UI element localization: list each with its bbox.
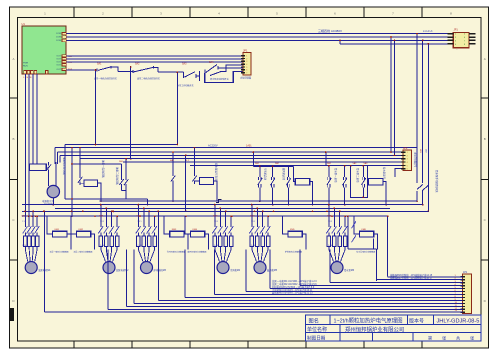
svg-text:5: 5: [407, 165, 408, 167]
svg-text:引风机启动: 引风机启动: [264, 168, 268, 181]
wire to 1P1 pin 12: [108, 308, 463, 310]
wire loop bottom y198.8: [65, 198, 148, 200]
lamp HL1 bottom wire: [52, 198, 54, 205]
wire link bar y249.1: [348, 248, 377, 250]
motor 鼓风机M5: [254, 262, 266, 274]
svg-text:KM2: KM2: [79, 229, 84, 231]
svg-text:油泵二启动回路: 油泵二启动回路: [116, 167, 120, 185]
svg-text:4: 4: [246, 64, 247, 66]
contactor coil KM1: [53, 231, 67, 237]
svg-text:电源指示灯: 电源指示灯: [42, 199, 55, 203]
svg-text:第: 第: [428, 334, 432, 341]
right margin zone ticks: [481, 97, 489, 99]
svg-text:KM3: KM3: [172, 229, 177, 231]
transfer contact A slash: [417, 185, 423, 190]
contactor KM2 main contact poles: [137, 219, 139, 228]
control rung wire: [66, 69, 97, 71]
coil KA5 right lead: [383, 182, 386, 205]
coil KM3 left lead: [164, 216, 170, 234]
svg-text:1: 1: [407, 152, 408, 154]
right lower loop wire riser x387.7: [387, 216, 389, 276]
svg-text:三相四线 AC380V: 三相四线 AC380V: [318, 28, 342, 33]
rung wire after SA2: [158, 71, 183, 73]
PLC U1 bottom-edge pins: [24, 71, 27, 75]
svg-text:PWR: PWR: [23, 63, 29, 65]
svg-text:OUT: OUT: [56, 69, 61, 71]
svg-text:1 3 5: 1 3 5: [328, 221, 332, 223]
wire to 1P1 pin 1: [388, 276, 463, 278]
contactor KM3 main contact poles: [214, 219, 216, 228]
wire vertical drop at x394.5: [394, 40, 396, 155]
middle wire to JP2 pin5: [190, 164, 403, 166]
svg-text:KM1: KM1: [55, 229, 60, 231]
svg-text:5: 5: [246, 67, 247, 69]
contact aux x344.6: [344, 166, 346, 177]
motor 油泵电机M2: [103, 262, 115, 274]
lower bus y204.6 long: [22, 204, 423, 206]
svg-text:1 3 5: 1 3 5: [100, 221, 104, 223]
PLC U1 right-edge pins group 2: [62, 55, 66, 57]
contactor KM4 main contact poles: [251, 219, 253, 228]
PLC bottom supply wires: [24, 74, 26, 219]
svg-text:2 4 6: 2 4 6: [100, 245, 104, 247]
connector JP1 left pin stubs: [241, 55, 245, 57]
switch SA2 oil pump 2 auto control: [132, 70, 134, 73]
coil KM1 right lead: [67, 234, 71, 249]
motor 油泵电机M2 lead wires: [101, 250, 106, 262]
motor 引风机M4 lead wires: [215, 250, 220, 262]
rung wire between SA1 and SA2: [118, 71, 133, 73]
svg-text:KM2: KM2: [137, 216, 142, 218]
coil KM5 right lead: [302, 234, 306, 249]
coil KM6 left lead: [354, 216, 360, 234]
terminal block 1P1 body: [463, 274, 472, 314]
svg-text:KM1: KM1: [99, 216, 104, 218]
svg-text:版本号: 版本号: [409, 317, 424, 324]
connector JP3 body: [453, 32, 469, 47]
contactor QF2 main contact poles: [24, 219, 26, 228]
coil KA4: [295, 179, 310, 186]
svg-text:鼓风机M5:U5V5W5→1P1端子排12.13: 鼓风机M5:U5V5W5→1P1端子排12.13: [272, 291, 313, 295]
terminal block 1P1 pin stubs: [461, 276, 466, 278]
wire drop x147.5: [147, 199, 149, 205]
svg-text:1A01: 1A01: [246, 144, 252, 147]
svg-text:L1 L2 L3: L1 L2 L3: [423, 30, 433, 33]
bundle riser wires: [329, 250, 331, 283]
svg-text:COM: COM: [56, 40, 61, 42]
wire notch at cluster2 outlet: [216, 200, 222, 203]
connector JP3 right pin stubs: [469, 33, 476, 35]
title block outer border: [306, 315, 482, 341]
svg-text:2 4 6: 2 4 6: [214, 245, 218, 247]
title block column line a: [329, 315, 331, 325]
svg-text:JP2: JP2: [403, 146, 408, 150]
header bar y166.3: [253, 165, 293, 167]
svg-text:U1: U1: [22, 22, 26, 26]
middle wire to JP2 pin4: [123, 161, 403, 163]
wire to 1P1 pin 7: [215, 294, 463, 296]
contactor coil KM6: [359, 231, 373, 237]
wire to 1P1 pin 11: [126, 305, 462, 307]
wire riser x373.6: [373, 238, 375, 249]
wire vertical drop at x417: [416, 34, 418, 183]
svg-text:1: 1: [246, 56, 247, 58]
middle wire to JP2 pin2: [60, 154, 403, 156]
svg-text:SA3: SA3: [182, 62, 187, 65]
title block column line g: [412, 333, 414, 341]
svg-text:RUN: RUN: [23, 66, 28, 68]
svg-text:1~2t/h颗粒加热炉电气原理图: 1~2t/h颗粒加热炉电气原理图: [334, 317, 403, 325]
svg-text:SA1: SA1: [97, 63, 102, 66]
svg-text:6: 6: [246, 70, 247, 72]
switch SA3 pump changeover: [182, 72, 184, 75]
left margin zone ticks: [10, 97, 18, 99]
lower bus y201.2: [99, 200, 417, 202]
svg-text:4: 4: [407, 162, 408, 164]
middle wire to JP2 pin3: [80, 158, 403, 160]
connector JP3 left pin stubs: [448, 33, 454, 35]
svg-text:给水泵运行: 给水泵运行: [383, 167, 387, 180]
svg-text:KM5: KM5: [290, 229, 295, 231]
contactor KM1 supply feed wires: [100, 205, 102, 219]
svg-text:2 4 6: 2 4 6: [328, 245, 332, 247]
contactor KM1 main contact poles: [100, 219, 102, 228]
svg-text:SA2: SA2: [135, 63, 140, 66]
title block row separator 2: [306, 332, 482, 334]
contactor coil KM5: [288, 231, 302, 237]
wire to 1P1 pin 5: [270, 288, 463, 290]
contact KM1 aux x80: [79, 148, 81, 175]
contactor KM5 main contact poles: [328, 219, 330, 228]
title block column line c: [433, 315, 435, 325]
wire below contact x417: [416, 191, 418, 201]
wires from SA4 into JP1: [226, 67, 243, 69]
bus corner verticals at left: [54, 148, 56, 164]
svg-text:制图日期: 制图日期: [307, 335, 326, 342]
motor 给水泵M6: [331, 262, 343, 274]
PLC U1 right-edge pin group 3: [62, 68, 66, 70]
coil KM3 right lead: [184, 234, 188, 249]
contact aux x288.5: [288, 166, 290, 177]
wire vertical drop at x340 feeding L4: [339, 40, 341, 43]
right lower loop wire riser x376.5: [376, 249, 378, 281]
svg-text:3: 3: [407, 159, 408, 161]
wire contact to coil KA2: [80, 183, 84, 185]
svg-text:郑州恒邦锅炉业有限公司: 郑州恒邦锅炉业有限公司: [345, 326, 404, 334]
svg-text:单位名称: 单位名称: [307, 326, 327, 333]
contact aux x328.9: [328, 166, 330, 177]
title block column line b: [407, 315, 409, 325]
bypass wire around SA1 SA2: [96, 70, 178, 145]
coil KM2 right lead: [91, 234, 95, 249]
svg-text:1 3 5: 1 3 5: [251, 221, 255, 223]
coil KA4 right lead: [310, 182, 313, 205]
svg-text:1P1: 1P1: [463, 271, 468, 274]
contact KM2 aux x173: [172, 152, 174, 176]
motor 给水泵M6 lead wires: [329, 250, 334, 262]
connector JP1 body: [243, 53, 251, 75]
wire to 1P1 pin 2: [377, 279, 463, 281]
svg-text:KM6: KM6: [361, 229, 366, 231]
contact aux x363.4: [362, 166, 364, 177]
middle bus y144.5: [65, 144, 177, 146]
wire to 1P1 pin 9: [158, 300, 462, 302]
left margin centering mark: [10, 308, 15, 321]
switch SA4 lower loop wire: [205, 71, 243, 82]
wire riser x185.6: [185, 155, 187, 211]
svg-text:OUT: OUT: [56, 55, 61, 57]
svg-text:1 3 5: 1 3 5: [214, 221, 218, 223]
coil KM5 left lead: [282, 216, 288, 234]
svg-text:JP1: JP1: [243, 49, 248, 53]
wire riser x65: [64, 145, 66, 199]
coil KM4 right lead: [205, 234, 209, 249]
svg-text:OUT: OUT: [56, 61, 61, 63]
svg-text:2 4 6: 2 4 6: [22, 245, 26, 247]
lower bus y211.4: [22, 210, 428, 212]
coil KM6 right lead: [374, 234, 378, 249]
svg-text:图名: 图名: [309, 316, 319, 324]
wire vertical drop at x391: [390, 37, 392, 152]
svg-text:COM: COM: [56, 37, 61, 39]
wire drop from rung x130.7: [130, 67, 132, 159]
wire to 1P1 pin 13: [44, 311, 462, 313]
contact merge bar: [121, 189, 126, 191]
wire riser x325.9 to header: [325, 152, 327, 166]
svg-text:OUT: OUT: [56, 64, 61, 66]
top margin zone ticks: [73, 7, 75, 18]
wire to 1P1 pin 6: [246, 291, 463, 293]
wire vertical drop at x428.4: [427, 44, 429, 186]
contactor QF2 supply feed wires: [32, 211, 34, 218]
coil KA4 feed from header: [293, 166, 295, 181]
motor 引风机M4: [217, 262, 229, 274]
svg-text:KM5: KM5: [327, 216, 332, 218]
wire riser x253.3 to header: [252, 152, 254, 166]
contactor coil KM2: [77, 231, 91, 237]
contact aux x259.8: [259, 166, 261, 177]
coil KM4 left lead: [185, 216, 191, 234]
svg-text:KM4: KM4: [193, 229, 198, 231]
title block column line f: [372, 333, 374, 341]
svg-text:给水泵二启动: 给水泵二启动: [356, 168, 360, 183]
JP2 pin6 stub: [395, 169, 403, 177]
bottom margin zone ticks: [73, 341, 75, 348]
svg-text:SA4: SA4: [209, 61, 214, 64]
PLC U1 right-edge pins group 1: [62, 32, 66, 34]
svg-text:2: 2: [246, 58, 247, 60]
svg-text:B: B: [12, 137, 14, 141]
svg-text:COM: COM: [56, 33, 61, 35]
svg-text:JP1: JP1: [454, 28, 459, 31]
motor 油泵电机M1: [25, 262, 37, 274]
PLC output wires to JP1 group: [66, 55, 243, 57]
contact aux x126.1: [125, 159, 127, 180]
connector JP2 body: [403, 150, 412, 170]
wire vertical drop at x422.7: [422, 40, 424, 183]
switch SA1 oil pump 1 auto control: [96, 68, 98, 71]
motor 油泵电机M1 lead wires: [25, 250, 27, 262]
sub loop rectangle: [351, 166, 368, 198]
motor 炉排电机M3 lead wires: [138, 250, 143, 262]
svg-text:7: 7: [246, 73, 247, 75]
svg-text:电源指示灯回路: 电源指示灯回路: [63, 157, 67, 175]
svg-text:KM3: KM3: [213, 216, 218, 218]
connector JP2 left pin stubs: [401, 151, 405, 153]
svg-text:2: 2: [407, 155, 408, 157]
coil KA3: [199, 178, 213, 185]
coil KA5: [368, 179, 383, 186]
motor 炉排电机M3: [141, 262, 153, 274]
svg-text:鼓风机启动: 鼓风机启动: [282, 168, 286, 181]
header bar y165.7: [326, 165, 367, 167]
contactor coil KM4: [191, 231, 205, 237]
svg-text:给水泵手动控制开关: 给水泵手动控制开关: [435, 170, 439, 193]
wire loop top y163.9: [72, 163, 121, 165]
svg-text:A: A: [12, 57, 14, 61]
svg-text:2 4 6: 2 4 6: [251, 245, 255, 247]
middle bus y147.7 long: [55, 147, 417, 149]
contact slashes on KM6 lead: [352, 221, 357, 228]
svg-text:3: 3: [246, 61, 247, 63]
wire coil to contact: [46, 166, 48, 168]
contactor KM2 supply feed wires: [137, 205, 139, 219]
svg-text:6: 6: [407, 169, 408, 171]
contact KA1 aux: [48, 162, 50, 165]
lower bus y208.4: [55, 207, 390, 209]
svg-text:KM4: KM4: [250, 216, 255, 218]
svg-text:JHLY-GDJR-08-5: JHLY-GDJR-08-5: [437, 319, 480, 325]
contactor coil KM3: [170, 231, 184, 237]
svg-text:A: A: [484, 57, 486, 61]
relay coil KA1: [30, 164, 47, 170]
wire to 1P1 pin 8: [185, 297, 462, 299]
contactor KM5 supply feed wires: [328, 205, 330, 219]
title block column line e: [339, 333, 341, 341]
svg-text:B: B: [484, 137, 486, 141]
contact aux x121.4: [120, 164, 122, 180]
indicator lamp HL1: [47, 185, 59, 197]
svg-text:OUT: OUT: [56, 58, 61, 60]
wire below contact x422.7: [422, 190, 424, 204]
svg-text:给水泵运行指示: 给水泵运行指示: [215, 163, 219, 181]
svg-text:1 3 5: 1 3 5: [22, 221, 26, 223]
coil KM1 left lead: [47, 216, 53, 234]
svg-text:共: 共: [456, 334, 460, 341]
wire below contact x428.4: [427, 185, 429, 211]
motor 鼓风机M5 lead wires: [252, 250, 257, 262]
svg-text:AC220V: AC220V: [208, 143, 218, 147]
svg-text:油泵一启动回路: 油泵一启动回路: [102, 160, 106, 178]
transfer contact B slash: [423, 185, 429, 190]
title block row separator 1: [306, 324, 482, 326]
contactor KM3 supply feed wires: [214, 205, 216, 219]
wire riser x72: [71, 148, 73, 217]
wire riser x347.8: [347, 216, 349, 249]
wire to 1P1 pin 3: [330, 282, 463, 284]
middle wire to JP2 pin1: [58, 151, 404, 153]
coil KM2 left lead: [71, 216, 77, 234]
svg-text:1 3 5: 1 3 5: [138, 221, 142, 223]
wire to 1P1 pin 10: [134, 302, 463, 304]
contact aux x272.6: [272, 166, 274, 177]
switch SA4 feed water pump selector: [199, 71, 201, 81]
junction dots on lower buses: [24, 211, 26, 213]
coil KA5 feed: [367, 166, 368, 182]
coil KA2: [84, 180, 98, 187]
coil KA2 right lead: [98, 183, 102, 201]
coil KA3 right lead: [213, 181, 217, 201]
title block column line d: [339, 325, 341, 333]
contact to lamp wires: [55, 162, 57, 172]
PLC controller U1 body: [22, 26, 66, 74]
lower bus y216.2: [22, 215, 388, 217]
contactor KM4 supply feed wires: [251, 205, 253, 219]
wire to 1P1 pin 4: [300, 285, 463, 287]
contact KM3 aux x194.5: [194, 148, 196, 177]
PLC bottom wires to relay coil: [32, 74, 34, 164]
svg-text:2 4 6: 2 4 6: [138, 245, 142, 247]
svg-text:给水泵一启动: 给水泵一启动: [334, 168, 338, 183]
three-phase supply bus wires L1 L2 L3 L4: [66, 33, 447, 35]
